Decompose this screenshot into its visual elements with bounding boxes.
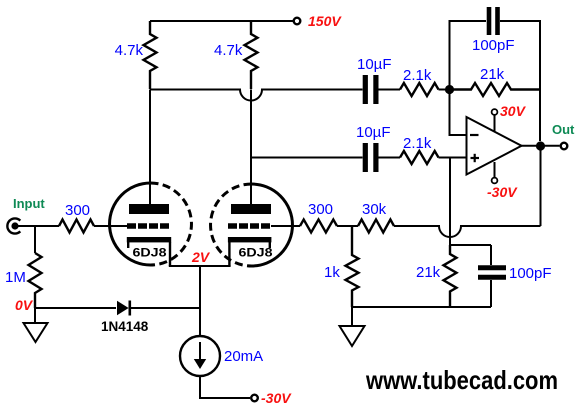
wire minus input branch: [450, 90, 467, 136]
wire grid2 lead: [271, 225, 300, 227]
capacitor 10uF upper: [363, 75, 368, 104]
junction node A: [445, 85, 454, 94]
svg-text:10µF: 10µF: [357, 56, 392, 73]
wire ground bus y=307: [352, 306, 491, 308]
svg-text:1M: 1M: [5, 269, 26, 286]
wire 300 to 30k: [337, 225, 358, 227]
resistor 30k: [358, 220, 394, 233]
wire 2.1k to plus input: [439, 157, 467, 159]
wire cathode join: [169, 266, 231, 336]
op-amp +30V supply: [494, 115, 496, 131]
wire current source to -30V: [200, 376, 250, 398]
wire cap to 2.1k lower: [379, 157, 401, 159]
svg-text:20mA: 20mA: [224, 348, 263, 365]
svg-text:4.7k: 4.7k: [115, 42, 144, 59]
vacuum tube V2 6DJ8 right: [211, 184, 293, 266]
ground right: [351, 307, 353, 326]
terminal 150V: [294, 18, 301, 25]
svg-text:100pF: 100pF: [472, 37, 515, 54]
wire cap to 2.1k upper: [379, 89, 401, 91]
resistor 21k bottom: [444, 245, 457, 307]
diode D1 1N4148: [117, 301, 129, 315]
current source I1 20mA: [180, 336, 220, 376]
op-amp -30V supply: [494, 162, 496, 178]
wire 0V line to diode: [35, 307, 116, 309]
wire 21k to cap branch: [450, 244, 491, 246]
svg-text:2V: 2V: [191, 249, 211, 265]
svg-text:150V: 150V: [308, 13, 342, 29]
resistor 2.1k upper: [400, 83, 439, 96]
svg-text:2.1k: 2.1k: [403, 135, 432, 152]
op-amp U1: [467, 117, 522, 175]
wire 300 to grid: [94, 225, 127, 227]
input jack terminal: [11, 222, 18, 229]
terminal Out: [561, 143, 568, 150]
wire input to 300: [18, 225, 59, 227]
svg-text:21k: 21k: [416, 264, 441, 281]
vacuum tube V1 6DJ8 left: [110, 183, 192, 266]
svg-text:6DJ8: 6DJ8: [133, 248, 168, 260]
wire plate2 branch y=157.5: [251, 157, 363, 159]
svg-text:-30V: -30V: [487, 184, 518, 200]
svg-text:100pF: 100pF: [509, 265, 552, 282]
wire 1M branch: [34, 226, 36, 253]
svg-text:30V: 30V: [500, 103, 527, 119]
capacitor 10uF lower: [363, 143, 368, 172]
wire top rail: [150, 20, 293, 22]
ground left: [34, 308, 36, 323]
svg-text:-30V: -30V: [261, 390, 292, 406]
wire left plate lead: [149, 90, 151, 205]
wire op-amp output: [522, 145, 560, 147]
svg-text:300: 300: [308, 201, 333, 218]
wire diode to cathode node: [130, 307, 200, 309]
wire 2.1k to node A: [439, 89, 450, 91]
wire left plate line y=89 with hop over x=251: [150, 90, 363, 101]
resistor 300 input: [59, 220, 94, 233]
capacitor 100pF top: [487, 7, 492, 35]
svg-text:30k: 30k: [362, 201, 387, 218]
resistor 1k: [346, 226, 359, 307]
wire plus branch vertical: [449, 158, 451, 246]
svg-text:4.7k: 4.7k: [214, 42, 243, 59]
svg-text:21k: 21k: [480, 66, 505, 83]
junction output dot: [536, 141, 545, 150]
svg-text:300: 300: [65, 202, 90, 219]
wire right plate lead: [250, 90, 252, 205]
wire cap top to right vertical: [500, 21, 540, 141]
svg-text:0V: 0V: [15, 297, 34, 313]
resistor 300 right: [300, 220, 337, 233]
svg-text:1k: 1k: [324, 264, 340, 281]
resistor 2.1k lower: [400, 151, 439, 164]
svg-text:6DJ8: 6DJ8: [239, 248, 274, 260]
svg-text:2.1k: 2.1k: [403, 67, 432, 84]
resistor 1M: [29, 253, 42, 308]
terminal -30V bottom: [251, 395, 258, 402]
wire output vertical: [540, 146, 542, 226]
svg-text:Input: Input: [13, 196, 45, 211]
svg-text:1N4148: 1N4148: [101, 319, 149, 334]
svg-text:Out: Out: [552, 122, 575, 137]
resistor 21k feedback: [450, 83, 541, 96]
resistor R1 4.7k left: [144, 21, 157, 89]
wire 30k to output vertical with hop over x=450: [394, 226, 541, 237]
svg-text:10µF: 10µF: [356, 124, 391, 141]
capacitor 100pF bottom: [490, 245, 492, 265]
resistor R2 4.7k right: [245, 21, 258, 89]
wire feedback loop top: [450, 21, 487, 90]
svg-text:www.tubecad.com: www.tubecad.com: [365, 365, 558, 395]
